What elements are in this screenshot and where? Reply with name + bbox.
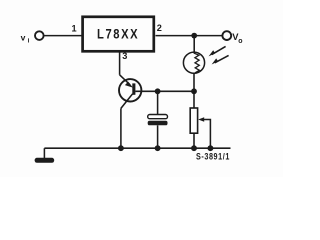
ground symbol <box>35 158 55 163</box>
light arrow 2 <box>212 55 229 64</box>
wire base to mid junction <box>135 90 194 92</box>
junction dot bottom (wiper) <box>208 145 214 151</box>
potentiometer wiper arrow <box>198 117 210 148</box>
wire pot top lead <box>193 91 195 108</box>
LDR internal zigzag element <box>194 52 199 73</box>
junction dot mid (capacitor top) <box>155 88 161 94</box>
svg-text:o: o <box>238 38 242 45</box>
capacitor C1 top plate (hollow) <box>148 115 168 119</box>
potentiometer R2 body <box>190 108 197 133</box>
wire pin 2 to output terminal <box>156 35 223 37</box>
wire LDR bottom to mid junction <box>193 73 195 91</box>
svg-text:S-3891/1: S-3891/1 <box>196 152 230 162</box>
photoresistor R1 (LDR) circle <box>183 52 204 73</box>
svg-text:v: v <box>21 32 26 42</box>
node Vi label <box>21 32 30 44</box>
svg-text:1: 1 <box>72 24 77 34</box>
junction dot bottom (capacitor) <box>155 145 161 151</box>
junction dot bottom (collector) <box>118 145 124 151</box>
wire capacitor bottom lead <box>157 125 159 148</box>
junction node dot (output / LDR) <box>191 33 197 39</box>
wire collector down to bottom rail <box>120 108 122 148</box>
transistor Q1 circle <box>119 79 141 101</box>
wire input terminal to pin 1 <box>44 35 82 37</box>
wire junction to LDR top <box>193 36 195 53</box>
regulator U1 L78XX box <box>83 17 154 52</box>
wire pin 3 vertical <box>119 51 121 75</box>
svg-text:2: 2 <box>157 23 162 33</box>
transistor emitter diagonal with arrow <box>120 75 133 88</box>
input terminal circle <box>35 31 44 40</box>
svg-text:i: i <box>28 37 30 44</box>
junction dot bottom (pot) <box>191 145 197 151</box>
junction dot mid (LDR / pot) <box>191 88 197 94</box>
transistor base bar <box>132 83 135 94</box>
light arrow 1 <box>209 46 226 56</box>
transistor collector diagonal <box>121 94 133 109</box>
capacitor C1 bottom plate (solid) <box>148 121 168 126</box>
ground stub wire <box>43 148 45 158</box>
svg-text:3: 3 <box>122 51 127 61</box>
output terminal circle <box>222 31 231 40</box>
node Vo label <box>232 31 242 45</box>
wire pot bottom lead <box>193 133 195 148</box>
wire capacitor top lead <box>157 91 159 114</box>
bottom rail wire <box>44 147 230 149</box>
svg-text:L78XX: L78XX <box>97 27 139 42</box>
